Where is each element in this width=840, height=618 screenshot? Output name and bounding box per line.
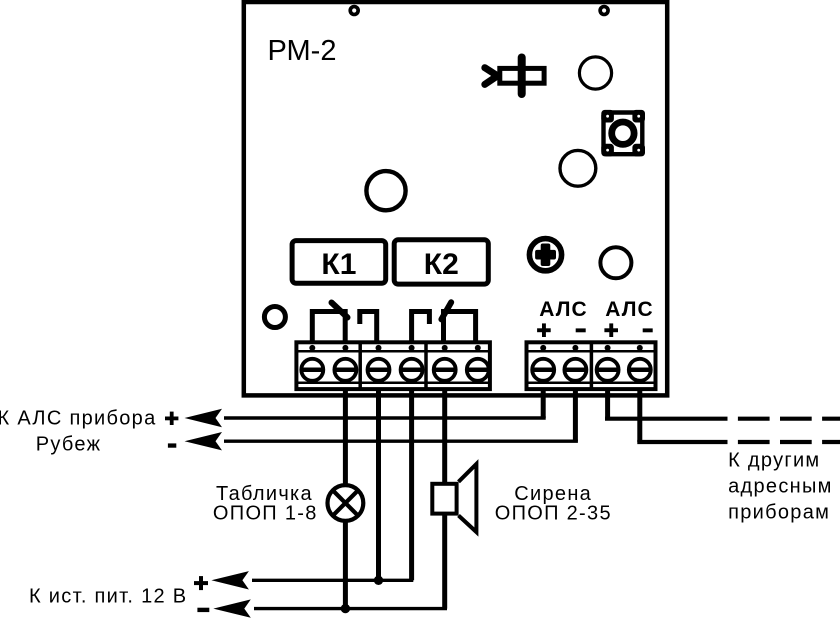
svg-text:К2: К2	[424, 248, 459, 281]
svg-text:приборам: приборам	[728, 502, 830, 524]
svg-text:АЛС: АЛС	[539, 298, 588, 321]
svg-text:К АЛС прибора: К АЛС прибора	[0, 408, 157, 430]
svg-text:К ист. пит. 12 В: К ист. пит. 12 В	[29, 585, 187, 607]
svg-text:ОПОП 2-35: ОПОП 2-35	[495, 502, 612, 524]
svg-text:Рубеж: Рубеж	[36, 434, 102, 456]
svg-text:ОПОП 1-8: ОПОП 1-8	[213, 502, 318, 524]
svg-text:К1: К1	[321, 248, 356, 281]
svg-text:АЛС: АЛС	[605, 298, 654, 321]
svg-text:К другим: К другим	[728, 450, 820, 472]
svg-text:адресным: адресным	[728, 476, 833, 498]
svg-text:РМ-2: РМ-2	[268, 35, 337, 67]
